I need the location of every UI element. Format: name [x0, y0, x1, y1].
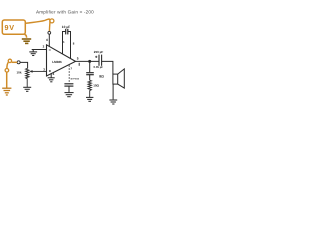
- svg-text:9V: 9V: [5, 23, 15, 32]
- squiggle loop A: [8, 59, 11, 62]
- plus sign noninverting input: [49, 70, 51, 72]
- wire speaker to ground: [112, 84, 114, 99]
- svg-text:BYPASS: BYPASS: [71, 78, 80, 81]
- wire pin2 input: [32, 49, 47, 51]
- stray tick mark: [79, 63, 80, 66]
- wire terminal to pot: [20, 62, 27, 68]
- wire battery negative (orange): [25, 34, 27, 37]
- squiggle descent: [7, 62, 8, 68]
- svg-text:8Ω: 8Ω: [99, 74, 104, 78]
- pot wiper arrow: [32, 70, 47, 72]
- minus sign inverting input: [49, 49, 51, 51]
- wire output pin5: [76, 60, 100, 62]
- battery 9V box: [2, 20, 25, 34]
- capacitor bypass: [64, 83, 73, 85]
- ground bypass: [65, 93, 74, 97]
- svg-text:5: 5: [77, 56, 79, 60]
- ground pot: [23, 87, 31, 91]
- input source squiggle (orange): [12, 61, 18, 63]
- speaker: [113, 74, 118, 84]
- wire battery positive to pin6 (orange): [26, 19, 50, 31]
- wire pin4: [50, 73, 52, 77]
- ground pin2: [29, 50, 37, 56]
- svg-text:Amplifier with Gain = -200: Amplifier with Gain = -200: [36, 9, 94, 14]
- ground speaker: [109, 100, 117, 104]
- op-amp U1 LM386 triangle: [47, 45, 76, 76]
- input terminal node: [17, 61, 20, 64]
- squiggle loop B: [5, 69, 9, 73]
- svg-text:3: 3: [43, 67, 45, 71]
- potentiometer 10k: [26, 68, 29, 87]
- wire pin6 stub: [48, 34, 50, 47]
- wire pin7 dashed bypass: [68, 65, 70, 83]
- svg-text:10k: 10k: [17, 71, 22, 75]
- wire zobel branch: [89, 61, 91, 72]
- node pin6 terminal: [48, 31, 51, 34]
- svg-text:1: 1: [63, 40, 65, 44]
- wire cap to resistor: [89, 75, 91, 81]
- svg-text:LM386: LM386: [52, 60, 62, 64]
- svg-text:6: 6: [46, 38, 48, 42]
- ground input source (orange): [2, 88, 11, 95]
- capacitor 0.05uF: [86, 72, 94, 74]
- capacitor C2 250uF output: [98, 55, 100, 66]
- svg-text:7: 7: [70, 66, 72, 70]
- ground battery (orange): [22, 39, 31, 43]
- svg-text:8: 8: [73, 42, 75, 46]
- capacitor C1 10uF gain (pins 1-8): [63, 32, 66, 55]
- svg-text:2: 2: [43, 45, 45, 49]
- svg-text:10 µF: 10 µF: [62, 25, 70, 29]
- wire cap to speaker: [102, 61, 113, 74]
- wire bypass cap to ground: [68, 86, 70, 93]
- ground zobel: [86, 97, 93, 101]
- svg-text:10Ω: 10Ω: [93, 83, 99, 87]
- ground pin4: [48, 78, 55, 82]
- plus polarity 250uF: [95, 56, 97, 58]
- svg-text:250 µF: 250 µF: [94, 50, 104, 54]
- resistor 10 ohm: [88, 80, 91, 97]
- node output junction: [88, 60, 91, 63]
- wire loop curl: [50, 19, 54, 23]
- squiggle stem: [6, 72, 8, 87]
